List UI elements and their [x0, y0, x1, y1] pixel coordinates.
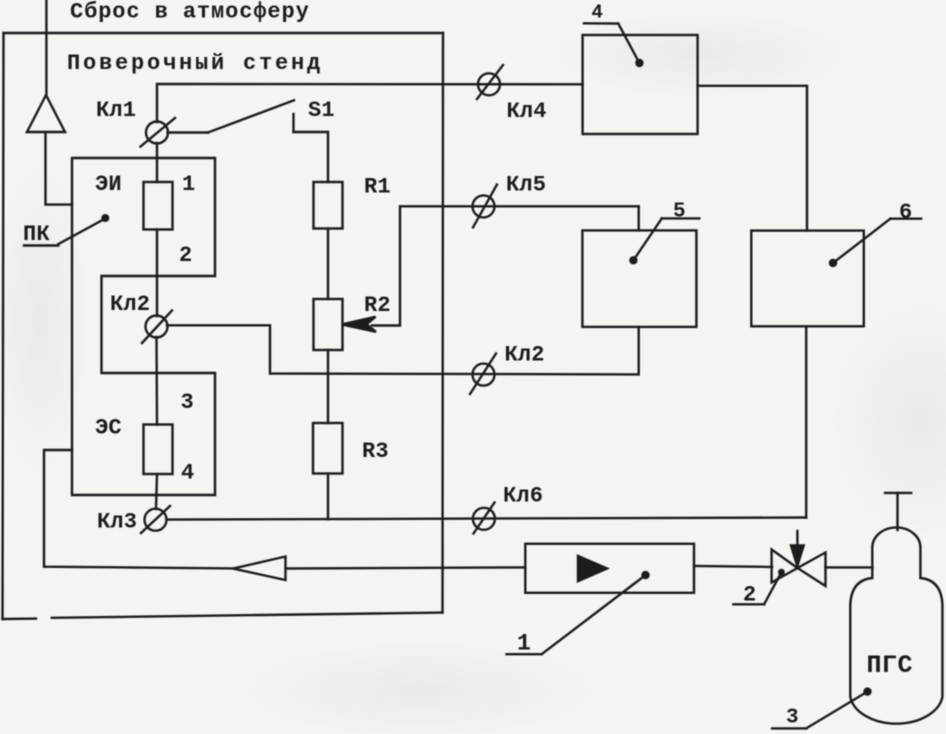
wire box4 to down rail	[698, 86, 807, 231]
svg-text:ЭС: ЭС	[95, 416, 122, 441]
valve Кл3	[141, 506, 170, 533]
svg-text:5: 5	[673, 201, 686, 224]
wiper arrow R2	[342, 206, 639, 331]
wire vent vertical top	[45, 0, 47, 95]
vent arrow triangle	[27, 95, 65, 132]
svg-text:3: 3	[786, 707, 799, 730]
callout 2	[733, 570, 783, 604]
valve Кл5	[473, 185, 498, 228]
svg-text:4: 4	[181, 461, 194, 486]
wire R3 to bottom rail	[327, 474, 329, 520]
svg-text:4: 4	[592, 2, 603, 24]
svg-text:ПК: ПК	[23, 222, 50, 247]
valve 2 stem arrow	[791, 531, 804, 566]
wire Кл2 down to resistor 3	[155, 337, 158, 425]
flow arrow left	[233, 557, 286, 581]
valve Кл1	[141, 118, 176, 147]
wire feedback from ЭС to block 1	[44, 450, 233, 568]
callout 5	[630, 218, 699, 263]
callout 3	[772, 689, 870, 729]
resistor R1	[314, 182, 343, 229]
wire R2 to R3	[327, 350, 329, 423]
wire Кл5 to box5	[638, 206, 640, 230]
wire Кл1 down to resistor 1	[156, 143, 158, 182]
svg-text:Кл1: Кл1	[96, 98, 136, 123]
valve Кл2 right	[470, 354, 496, 395]
wire Кл1 to box 4 top rail	[157, 84, 583, 122]
svg-text:Кл4: Кл4	[507, 99, 547, 124]
wire box6 down to bottom rail	[805, 326, 807, 517]
svg-text:ПГС: ПГС	[867, 651, 914, 680]
svg-text:R1: R1	[364, 175, 391, 200]
wire resistor1 to Кл2	[156, 230, 158, 317]
flow triangle	[578, 556, 607, 581]
block 1 flow indicator	[525, 544, 694, 593]
resistor 1 (ЭИ)	[144, 182, 173, 230]
cylinder ПГС outline	[850, 527, 942, 723]
cylinder valve T-handle	[885, 493, 911, 530]
valve Кл2	[142, 311, 172, 344]
resistor R3	[313, 423, 343, 474]
svg-text:Кл2: Кл2	[110, 292, 150, 317]
svg-text:Кл5: Кл5	[506, 173, 546, 198]
svg-text:2: 2	[743, 583, 756, 608]
wire Кл2 to Кл2 right and box 5 bottom	[167, 325, 639, 374]
node PK callout	[24, 215, 108, 245]
svg-text:Кл2: Кл2	[505, 343, 545, 368]
callout 6	[830, 219, 921, 266]
block 5	[582, 230, 696, 327]
wire resistor 4 to Кл3	[156, 474, 157, 509]
block ЭИ/ЭС outline	[72, 158, 215, 495]
svg-text:R2: R2	[364, 293, 391, 318]
block 4	[583, 35, 698, 134]
svg-text:Кл6: Кл6	[503, 484, 543, 509]
svg-text:1: 1	[182, 172, 195, 197]
valve Кл4	[477, 65, 503, 99]
wire R1 to R2	[327, 229, 329, 300]
svg-text:Поверочный стенд: Поверочный стенд	[67, 51, 323, 76]
switch S1	[168, 100, 329, 182]
svg-text:Кл3: Кл3	[97, 510, 137, 535]
wire arrow to block1	[286, 567, 526, 568]
potentiometer R2	[314, 299, 343, 350]
valve 2 bowtie	[772, 550, 826, 587]
wire block1 to valve 2	[694, 565, 772, 568]
valve Кл6	[473, 503, 495, 534]
svg-text:3: 3	[181, 390, 194, 415]
box Поверочный стенд outline	[3, 33, 444, 619]
wire vent to EI box	[46, 132, 73, 205]
svg-text:Сброс в атмосферу: Сброс в атмосферу	[70, 0, 310, 25]
block 6	[751, 231, 864, 327]
resistor 3/4 (ЭС)	[144, 425, 173, 475]
svg-text:2: 2	[179, 243, 192, 268]
svg-text:1: 1	[517, 631, 531, 657]
wire valve2 to cylinder	[825, 566, 872, 568]
callout 4	[584, 23, 642, 66]
svg-text:R3: R3	[362, 439, 389, 464]
callout 1	[507, 572, 649, 654]
wire Кл3 to Кл6 to box 6 riser	[167, 518, 807, 520]
svg-text:ЭИ: ЭИ	[95, 172, 122, 197]
svg-text:S1: S1	[308, 98, 335, 123]
svg-text:6: 6	[899, 200, 912, 225]
